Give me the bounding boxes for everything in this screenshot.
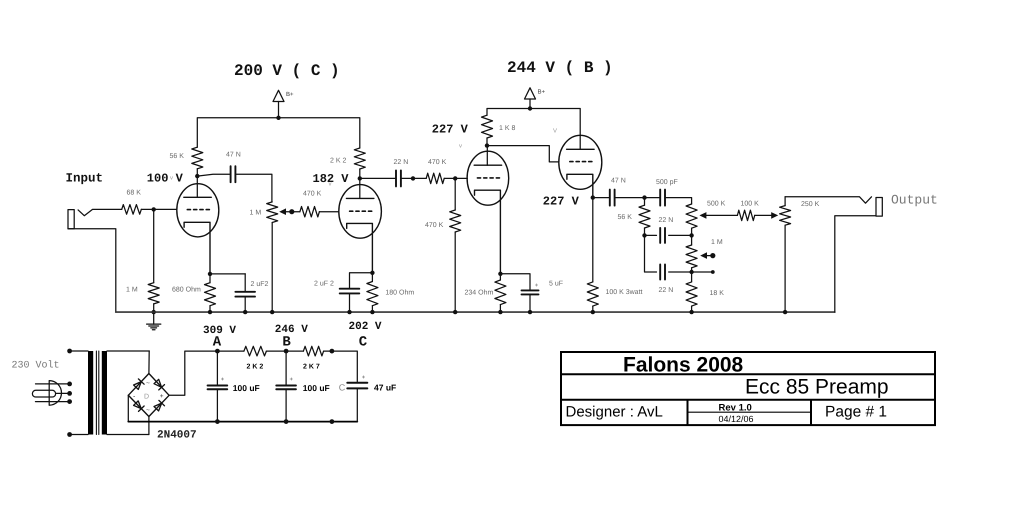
svg-text:+: + [362, 375, 366, 381]
node 1M tone bottom [689, 270, 693, 274]
node tube3 cathode [498, 272, 502, 276]
output jack J2 [785, 197, 871, 204]
node tube4 cathode [591, 195, 595, 199]
svg-text:1 M: 1 M [250, 209, 262, 216]
wiper arrow 1M pot [289, 209, 294, 214]
svg-text:C: C [359, 335, 368, 351]
node tube2 cathode [370, 271, 374, 275]
svg-text:1 M: 1 M [126, 287, 138, 294]
tube V1a ECC85 triode 1 [177, 184, 219, 237]
svg-text:250 K: 250 K [801, 201, 820, 208]
node tube1 plate [195, 174, 199, 178]
bridge rectifier D 2N4007 [128, 374, 169, 417]
svg-text:Ecc 85 Preamp: Ecc 85 Preamp [745, 376, 889, 399]
potentiometer 1M tone [691, 235, 693, 245]
svg-text:234 Ohm: 234 Ohm [465, 288, 494, 296]
capacitor 47N coupling 3 [593, 197, 609, 199]
svg-text:470 K: 470 K [428, 159, 447, 166]
resistor 2K2 psu [244, 346, 267, 356]
resistor 2K7 psu [303, 346, 323, 356]
svg-text:100 K 3watt: 100 K 3watt [606, 289, 643, 296]
resistor 680 Ohm cathode [209, 274, 211, 283]
tube V2a ECC85 triode 3 [467, 151, 509, 205]
svg-text:2 uF2: 2 uF2 [251, 281, 269, 288]
svg-text:B+: B+ [286, 91, 294, 98]
svg-text:5 uF: 5 uF [549, 281, 563, 288]
resistor 100K 3watt cathode [592, 198, 594, 282]
svg-text:v: v [459, 144, 462, 150]
wire bridge minus to psu ground rail [127, 395, 129, 421]
node tube2 plate [358, 176, 362, 180]
wire output sleeve riser [835, 216, 876, 312]
svg-text:100 K: 100 K [741, 201, 760, 208]
svg-text:227 V: 227 V [543, 195, 580, 209]
node tone stack top left [642, 195, 646, 199]
svg-text:2N4007: 2N4007 [157, 430, 197, 442]
svg-text:202 V: 202 V [349, 321, 382, 333]
ground [153, 312, 155, 324]
resistor 56K tone [644, 198, 646, 206]
svg-text:68 K: 68 K [127, 190, 142, 197]
wire psu ground rail [128, 421, 357, 423]
node after 22N [411, 176, 415, 180]
node B+ right rail junction [529, 99, 531, 109]
svg-text:~: ~ [146, 407, 150, 414]
capacitor 2uF2 cathode bypass 2 [350, 273, 373, 288]
wire input jack sleeve to ground rail [68, 229, 116, 312]
svg-text:Falons 2008: Falons 2008 [623, 354, 744, 377]
capacitor 500pF [645, 197, 660, 199]
capacitor 2uF2 cathode bypass [210, 273, 245, 275]
svg-text:180 Ohm: 180 Ohm [385, 288, 414, 296]
resistor 18K [691, 272, 693, 282]
diode bridge top-right [154, 379, 162, 387]
svg-text:C: C [339, 383, 346, 393]
svg-text:A: A [213, 335, 222, 351]
svg-text:~: ~ [146, 380, 150, 387]
diode bridge top-left [134, 382, 142, 390]
svg-text:Input: Input [66, 172, 104, 186]
svg-text:47 uF: 47 uF [374, 383, 396, 393]
resistor 180 Ohm cathode [371, 273, 373, 282]
diode bridge bottom-left [134, 401, 142, 409]
wire main ground rail [116, 311, 835, 313]
resistor 470K grid leak vertical [454, 178, 456, 210]
svg-text:500 pF: 500 pF [656, 179, 678, 186]
node grid3 junction [453, 176, 457, 180]
svg-text:+: + [221, 377, 225, 383]
svg-text:+: + [160, 393, 164, 400]
svg-text:Page # 1: Page # 1 [825, 404, 887, 421]
svg-text:100 V: 100 V [147, 172, 184, 186]
capacitor 100uF A [216, 351, 218, 385]
svg-text:04/12/06: 04/12/06 [719, 414, 754, 424]
svg-text:2 K 2: 2 K 2 [247, 364, 264, 371]
wiper arrow 1M tone pot [710, 253, 715, 258]
svg-text:246 V: 246 V [275, 324, 308, 336]
node B+ left rail junction [278, 102, 280, 118]
svg-text:+: + [535, 283, 539, 289]
capacitor 47N coupling 1 [197, 174, 229, 176]
resistor 1K8 plate load [482, 115, 493, 138]
wire plate3 to grid4 [487, 146, 559, 162]
svg-text:Rev 1.0: Rev 1.0 [719, 402, 752, 413]
resistor 2K2 plate load [354, 148, 365, 169]
resistor 1M input [153, 209, 155, 282]
node input grid junction [152, 207, 156, 211]
svg-text:22 N: 22 N [659, 217, 674, 224]
svg-text:Output: Output [891, 193, 938, 208]
svg-text:244 V ( B ): 244 V ( B ) [507, 59, 613, 77]
resistor 234 Ohm cathode [499, 274, 501, 280]
svg-text:18 K: 18 K [710, 290, 725, 297]
resistor 470K grid 2 [413, 177, 426, 179]
resistor 470K grid stopper [292, 211, 300, 213]
node B [284, 349, 289, 354]
svg-text:500 K: 500 K [707, 201, 726, 208]
diode bridge bottom-right [154, 403, 162, 411]
svg-text:22 N: 22 N [394, 159, 409, 166]
svg-text:470 K: 470 K [425, 222, 444, 229]
svg-text:1 K 8: 1 K 8 [499, 125, 515, 132]
svg-text:D: D [144, 393, 149, 400]
svg-text:56 K: 56 K [618, 214, 633, 221]
capacitor 22N tone 1 [645, 234, 657, 236]
svg-text:2 K 7: 2 K 7 [303, 364, 320, 371]
svg-text:22 N: 22 N [659, 287, 674, 294]
node tube3 plate [485, 143, 489, 147]
wire bridge output to node A [169, 351, 244, 395]
resistor 68K [122, 205, 142, 215]
svg-text:2 uF 2: 2 uF 2 [314, 280, 334, 287]
node A [215, 349, 220, 354]
capacitor 22N coupling 2 [360, 177, 395, 179]
title block [561, 352, 935, 425]
wire B+ rail right (244V section) [487, 109, 580, 150]
potentiometer 500K treble [686, 204, 697, 228]
B+ symbol left [273, 90, 284, 101]
mains plug [49, 381, 61, 406]
B+ symbol right [525, 88, 536, 99]
tube V1b ECC85 triode 2 [339, 185, 382, 239]
svg-text:v: v [329, 182, 332, 188]
svg-text:2 K 2: 2 K 2 [330, 158, 346, 165]
svg-text:200 V ( C ): 200 V ( C ) [234, 62, 340, 80]
svg-text:100 uF: 100 uF [303, 383, 330, 393]
svg-text:230 Volt: 230 Volt [12, 360, 60, 372]
potentiometer 1M volume [267, 202, 278, 223]
svg-text:100 uF: 100 uF [233, 383, 260, 393]
input jack J1 [68, 210, 74, 229]
svg-text:Designer : AvL: Designer : AvL [566, 404, 663, 421]
svg-text:v: v [170, 176, 173, 182]
wire stub with terminal dot [692, 271, 713, 273]
potentiometer 250K output level [784, 197, 786, 206]
svg-text:680 Ohm: 680 Ohm [172, 286, 201, 294]
svg-text:47 N: 47 N [226, 152, 241, 159]
svg-text:B+: B+ [538, 89, 546, 96]
svg-text:47 N: 47 N [611, 177, 626, 184]
svg-text:B: B [282, 335, 291, 351]
svg-text:+: + [290, 377, 294, 383]
node C feed [330, 349, 335, 354]
wire B+ rail left (200V section) [197, 118, 359, 148]
svg-text:227 V: 227 V [432, 123, 469, 137]
capacitor 22N tone 2 [645, 235, 657, 272]
svg-text:470 K: 470 K [303, 191, 322, 198]
resistor 56K plate load [192, 147, 203, 169]
wiper arrows 500K to 250K with resistor 100K [703, 214, 737, 216]
svg-text:1 M: 1 M [711, 239, 723, 246]
capacitor 47uF C [347, 383, 367, 389]
node tube1 cathode [208, 272, 212, 276]
transformer T1 [67, 349, 72, 354]
capacitor 5uF cathode bypass [500, 274, 530, 290]
svg-text:56 K: 56 K [170, 153, 185, 160]
node 56K bottom [642, 233, 646, 237]
svg-text:V: V [553, 128, 557, 135]
tube V2b ECC85 triode 4 cathode follower [559, 135, 602, 189]
capacitor 100uF B [285, 351, 287, 385]
